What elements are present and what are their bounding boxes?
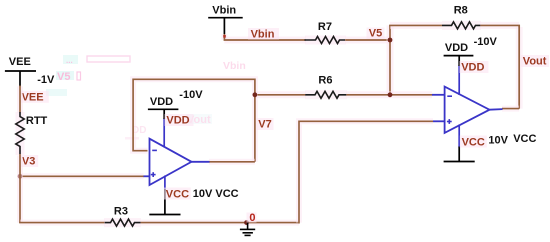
svg-text:VDD: VDD — [166, 114, 189, 126]
op-amp U2 — [432, 65, 503, 148]
wire R3 to ground — [141, 220, 299, 226]
resistor R3 — [104, 219, 141, 226]
svg-text:Vbin: Vbin — [251, 29, 275, 41]
label VDD U1 (red) — [165, 114, 194, 126]
resistor R7 — [305, 37, 347, 44]
junction node V7 — [253, 92, 258, 97]
junction node V3 — [18, 174, 23, 179]
junction node V5 — [388, 38, 393, 43]
svg-text:Vout: Vout — [523, 55, 547, 67]
artifact ghost highlight top-left — [63, 55, 130, 65]
svg-text:VDD: VDD — [445, 42, 468, 54]
wire bottom rail left to R3 — [19, 220, 105, 226]
svg-text:RTT: RTT — [26, 115, 48, 127]
wire R7 to node V5 — [345, 37, 390, 44]
svg-text:V3: V3 — [22, 155, 35, 167]
artifact ghost highlight VEE — [46, 89, 67, 96]
wire U1 output to node V7 — [209, 159, 255, 165]
wire VEE to RTT — [17, 86, 23, 113]
label Vbin (net) — [248, 28, 279, 41]
resistor R8 — [442, 22, 481, 29]
svg-text:V7: V7 — [258, 119, 271, 131]
svg-text:Vbin: Vbin — [223, 60, 246, 72]
wire Vbin corner to R7 — [224, 34, 306, 40]
junction R6 / V5 column — [388, 92, 393, 97]
svg-text:-10V: -10V — [474, 36, 498, 48]
label Vout — [521, 55, 549, 67]
resistor RTT — [16, 112, 24, 155]
svg-text:R3: R3 — [114, 205, 128, 217]
label VDD U2 (red) — [459, 61, 488, 73]
svg-text:-1V: -1V — [37, 74, 55, 86]
wire U2 output to Vout line — [502, 106, 519, 112]
artifact ghost marks near U1 VDD — [125, 125, 146, 140]
svg-text:-10V: -10V — [179, 89, 203, 101]
wire RTT to bottom rail — [17, 154, 23, 223]
power symbol VCC U1 — [149, 189, 180, 215]
svg-text:R7: R7 — [318, 21, 332, 33]
svg-text:R8: R8 — [454, 5, 468, 17]
svg-text:R6: R6 — [318, 75, 332, 87]
artifact ghost text Vout — [186, 114, 212, 126]
label V3 — [20, 155, 38, 167]
label 0 — [247, 212, 257, 224]
power symbol VDD U2 — [444, 56, 474, 66]
svg-text:VCC: VCC — [166, 188, 189, 200]
label VCC U2 (red) — [460, 136, 487, 149]
label VCC U1 (red) — [164, 188, 191, 201]
junction ground node 0 — [244, 220, 249, 225]
svg-text:VCC: VCC — [215, 188, 238, 200]
svg-text:Vbin: Vbin — [212, 4, 236, 16]
wire node V5 vertical (R8 corner down to R6 row) — [387, 25, 394, 94]
op-amp U1 — [143, 118, 210, 191]
label V7 — [257, 118, 274, 131]
power symbol VDD U1 — [148, 109, 179, 119]
power symbol Vbin — [208, 18, 243, 35]
svg-text:V5: V5 — [369, 28, 382, 40]
label V5 — [367, 28, 385, 40]
wire R8 to Vout corner — [480, 25, 519, 108]
svg-text:VEE: VEE — [22, 91, 44, 103]
pin end marker Vbin — [223, 35, 226, 38]
artifact ghost text V5 — [56, 71, 81, 83]
svg-text:VDD: VDD — [461, 61, 484, 73]
svg-text:V5: V5 — [57, 71, 70, 83]
svg-text:10V: 10V — [488, 134, 508, 146]
feedback wire U1 (output loop) — [133, 79, 255, 162]
wire R6 to U2 inverting input — [346, 91, 432, 98]
wire V3 node to U1 non-inverting input — [20, 173, 144, 179]
wire bottom rail up to U2 non-inverting input — [299, 121, 433, 223]
wire V5 corner to R8 — [389, 22, 442, 29]
power symbol VEE — [5, 71, 36, 86]
label VEE (red) — [20, 91, 49, 104]
svg-text:VCC: VCC — [462, 136, 485, 148]
svg-text:VDD: VDD — [150, 96, 173, 108]
power symbol VCC U2 — [444, 147, 475, 162]
svg-text:...: ... — [66, 56, 73, 65]
svg-text:10V: 10V — [193, 188, 213, 200]
ground symbol — [240, 223, 255, 236]
wire node V7 to R6 — [255, 91, 306, 98]
svg-text:0: 0 — [249, 212, 255, 224]
resistor R6 — [305, 91, 347, 98]
svg-text:VCC: VCC — [513, 133, 536, 145]
svg-text:VEE: VEE — [9, 56, 31, 68]
